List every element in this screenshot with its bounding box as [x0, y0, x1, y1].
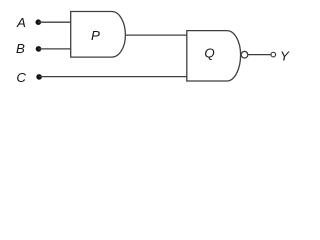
input terminal A	[36, 19, 42, 25]
input terminal C	[36, 74, 42, 80]
svg-text:P: P	[91, 28, 100, 43]
wire C to Q input	[39, 76, 187, 78]
inversion bubble on Q output	[241, 51, 248, 58]
wire P output to Q input	[125, 34, 187, 36]
svg-text:Q: Q	[204, 46, 214, 61]
input terminal B	[36, 46, 42, 52]
wire Q bubble to output terminal	[248, 54, 271, 56]
svg-text:A: A	[16, 15, 26, 30]
AND gate P	[71, 12, 126, 58]
svg-text:Y: Y	[280, 49, 290, 64]
svg-text:B: B	[16, 41, 25, 56]
output terminal Y (open circle)	[271, 52, 276, 57]
svg-text:C: C	[16, 70, 26, 85]
NAND gate Q body	[187, 31, 241, 81]
wire A to P input	[38, 21, 70, 23]
wire B to P input	[39, 48, 71, 50]
